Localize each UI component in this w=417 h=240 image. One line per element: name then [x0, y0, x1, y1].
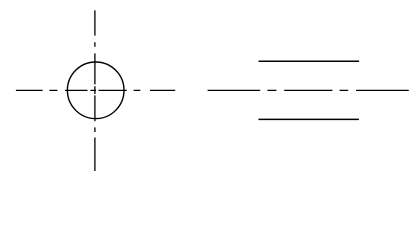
hole circle (front view)	[67, 62, 124, 119]
bottom visible edge (side view)	[259, 118, 359, 120]
top visible edge (side view)	[259, 60, 360, 62]
horizontal centerline (front view, dash-dot)	[16, 89, 175, 91]
vertical centerline (front view, dash-dot)	[94, 10, 96, 171]
axis centerline (side view, dash-dot)	[208, 89, 409, 91]
